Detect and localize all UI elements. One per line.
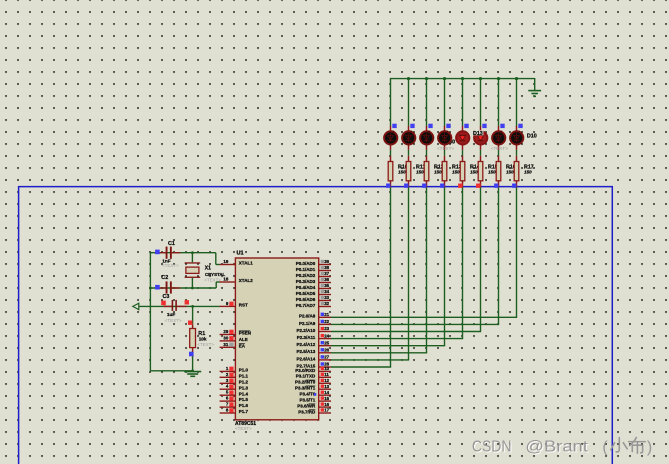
svg-text:P1.4: P1.4 xyxy=(239,391,249,396)
junction crystal bottom / C2 wire xyxy=(191,287,194,290)
label <TEXT> under LED D11 xyxy=(491,146,508,151)
svg-text:16: 16 xyxy=(324,402,329,407)
value 150 (R17) xyxy=(524,169,532,174)
overline WR (pin 16) xyxy=(309,403,316,406)
resistor R17 xyxy=(514,156,519,188)
watermark CSDN @Brant (xiaobu) shadow xyxy=(473,440,590,457)
svg-text:P3.5/T1: P3.5/T1 xyxy=(300,398,316,403)
pin 24 (P2.3/A11) right stub xyxy=(297,333,331,340)
svg-text:P3.3/INT1: P3.3/INT1 xyxy=(295,386,316,391)
svg-text:39: 39 xyxy=(324,259,329,264)
junction on rail at x=444.5 xyxy=(443,77,446,80)
resistor R1 xyxy=(190,324,196,356)
label <TEXT> under LED D14 xyxy=(437,146,454,151)
wire rail to LED D11 anode xyxy=(498,79,500,127)
wire rail to LED D16 anode xyxy=(408,79,410,127)
pin 30 (ALE) left stub xyxy=(220,335,248,342)
LED D12 xyxy=(474,126,487,150)
label fragment D15 (near LED3) xyxy=(411,132,414,138)
value 150 (R16) xyxy=(506,169,514,174)
svg-text:P2.2/A10: P2.2/A10 xyxy=(297,328,316,333)
svg-text:31: 31 xyxy=(223,342,228,347)
wire resistor R13 to P2.4 xyxy=(331,187,445,345)
svg-text:P1.0: P1.0 xyxy=(239,368,249,373)
svg-text:<TEXT>: <TEXT> xyxy=(197,342,214,347)
pin state square (blue) LED D15 top pin xyxy=(428,124,432,128)
svg-text:U1: U1 xyxy=(237,251,244,257)
label R15 xyxy=(488,165,498,171)
pin 17 (P3.7/RD) right stub xyxy=(298,408,331,415)
svg-text:P2.0/A8: P2.0/A8 xyxy=(299,314,316,319)
pin state square (blue) LED D10 top pin xyxy=(518,124,522,128)
value 10k (R1) xyxy=(199,337,207,342)
svg-text:P1.5: P1.5 xyxy=(239,397,249,402)
svg-text:<TEXT>: <TEXT> xyxy=(491,146,508,151)
capacitor C2 xyxy=(157,281,180,293)
pin 14 (P3.4/T0) right stub xyxy=(300,390,331,397)
resistor R11 xyxy=(406,156,411,188)
wire RST net xyxy=(139,305,220,307)
wire LED to resistor R13 xyxy=(444,150,446,156)
svg-text:D13: D13 xyxy=(473,131,483,137)
pin 21 (P2.0/A8) right stub xyxy=(299,312,331,319)
junction on rail at x=462.5 xyxy=(461,77,464,80)
pin state square (blue) LED D16 top pin xyxy=(410,124,414,128)
svg-text:C2: C2 xyxy=(161,275,168,281)
label R12 xyxy=(434,165,444,171)
wire LED to resistor R15 xyxy=(480,150,482,156)
svg-text:13: 13 xyxy=(324,384,329,389)
pin 13 (P3.3/INT1) right stub xyxy=(295,384,331,391)
pin state square R16 bottom pin xyxy=(494,184,498,188)
label C2 xyxy=(161,275,168,281)
wire ground vertical (left) xyxy=(149,252,151,371)
pin state square R17 bottom pin xyxy=(512,184,516,188)
label <TEXT> (U1) xyxy=(235,426,252,431)
wire rail to LED D13 anode xyxy=(462,79,464,127)
label R1 xyxy=(198,331,205,337)
LED D13 xyxy=(456,126,469,150)
svg-text:17: 17 xyxy=(324,408,329,413)
pin 23 (P2.2/A10) right stub xyxy=(297,326,331,333)
svg-text:): ) xyxy=(647,439,652,456)
value 150 (R10) xyxy=(398,169,406,174)
pin state square R10 bottom pin xyxy=(386,184,390,188)
svg-text:35: 35 xyxy=(324,283,329,288)
svg-text:P0.7/AD7: P0.7/AD7 xyxy=(296,303,316,308)
pin 8 (P1.7) left stub xyxy=(220,408,249,415)
LED D15 xyxy=(420,126,433,150)
pin state square (blue) LED D14 top pin xyxy=(446,124,450,128)
pin 34 (P0.5/AD5) right stub xyxy=(296,289,331,296)
pin state square (blue) LED D17 top pin xyxy=(392,124,396,128)
resistor R12 xyxy=(424,156,429,188)
svg-text:1uF: 1uF xyxy=(167,312,175,317)
pin 11 (P3.1/TXD) right stub xyxy=(296,372,331,379)
pin 35 (P0.4/AD4) right stub xyxy=(296,283,331,290)
pin 1 (P1.0) left stub xyxy=(220,366,249,373)
pin 10 (P3.0/RXD) right stub xyxy=(295,366,331,373)
wire C1 net (top horizontal to XTAL1) xyxy=(150,253,219,265)
svg-text:P2.6/A14: P2.6/A14 xyxy=(297,356,316,361)
pin state square R1 top pin (red) xyxy=(188,321,192,325)
pin 12 (P3.2/INT0) right stub xyxy=(295,378,331,385)
overline RD (pin 17) xyxy=(309,408,315,411)
wire resistor R14 to P2.3 xyxy=(331,187,463,338)
wire ground drop (rail right end) xyxy=(534,78,536,90)
pin 29 (PSEN) left stub xyxy=(220,329,251,336)
value 150 (R13) xyxy=(452,169,460,174)
junction on rail at x=498.5 xyxy=(497,77,500,80)
value 1uF (C3) xyxy=(167,312,175,317)
svg-text:P3.0/RXD: P3.0/RXD xyxy=(295,368,316,373)
resistor R13 xyxy=(442,156,447,188)
svg-text:<TEXT>: <TEXT> xyxy=(162,263,179,268)
label <TEXT> (C3) xyxy=(165,318,182,323)
svg-text:150: 150 xyxy=(452,169,460,174)
pin 32 (P0.7/AD7) right stub xyxy=(296,301,331,308)
label R13 xyxy=(452,165,462,171)
svg-text:P0.3/AD3: P0.3/AD3 xyxy=(296,279,316,284)
pin 9 (RST) left stub xyxy=(220,301,248,308)
label R14 xyxy=(470,165,480,171)
LED D16 xyxy=(402,126,415,150)
op-amp U1 (AT89C51 MCU body) xyxy=(235,258,318,420)
pin 15 (P3.5/T1) right stub xyxy=(300,396,331,403)
wire resistor R17 to P2.0 xyxy=(331,187,517,317)
svg-text:@Brant: @Brant xyxy=(525,438,588,455)
label R11 xyxy=(416,165,425,171)
svg-text:24: 24 xyxy=(324,333,329,338)
svg-text:XTAL2: XTAL2 xyxy=(239,278,253,283)
pin state square C2 left pin (blue) xyxy=(155,285,160,290)
svg-text:25: 25 xyxy=(324,340,329,345)
value 150 (R15) xyxy=(488,169,496,174)
pin 38 (P0.1/AD1) right stub xyxy=(296,265,331,272)
pin state square (blue) LED D12 top pin xyxy=(482,124,486,128)
label R10 xyxy=(398,165,408,171)
svg-text:P3.4/T0: P3.4/T0 xyxy=(300,392,316,397)
svg-text:P2.3/A11: P2.3/A11 xyxy=(297,335,316,340)
wire LED to resistor R14 xyxy=(462,150,464,156)
label <TEXT> (X1) xyxy=(204,277,221,282)
pin 25 (P2.4/A12) right stub xyxy=(297,340,331,347)
junction on rail at x=516.5 xyxy=(515,77,518,80)
wire resistor R15 to P2.2 xyxy=(331,187,481,331)
svg-text:34: 34 xyxy=(324,289,329,294)
svg-text:XTAL1: XTAL1 xyxy=(239,261,253,266)
pin state square C3 left pin (red) xyxy=(161,301,166,306)
svg-text:<TEXT>: <TEXT> xyxy=(165,318,182,323)
pin 4 (P1.3) left stub xyxy=(220,384,249,391)
svg-text:(: ( xyxy=(602,439,608,456)
junction on rail at x=480.5 xyxy=(479,77,482,80)
svg-text:150: 150 xyxy=(524,169,532,174)
label fragment D13 value xyxy=(449,140,455,146)
svg-text:P3.7/RD: P3.7/RD xyxy=(298,409,316,414)
pin state square (blue) LED D13 top pin xyxy=(464,124,468,128)
label U1 xyxy=(237,251,244,257)
watermark CSDN @Brant (xiaobu) xyxy=(472,437,652,455)
probe marker (blue, P3.4 row) xyxy=(314,393,316,396)
LED D11 xyxy=(492,126,505,150)
wire resistor R16 to P2.1 xyxy=(331,187,499,324)
svg-text:P1.7: P1.7 xyxy=(239,409,249,414)
svg-text:30: 30 xyxy=(223,335,228,340)
svg-text:X1: X1 xyxy=(205,266,211,272)
svg-text:CSDN: CSDN xyxy=(472,438,512,455)
label D13 (LED D13) xyxy=(472,130,484,137)
svg-text:C1: C1 xyxy=(168,241,175,247)
label <TEXT> (R1) xyxy=(197,342,214,347)
value 1nF (C1) xyxy=(162,259,170,264)
svg-text:P3.2/INT0: P3.2/INT0 xyxy=(295,380,316,385)
pin 33 (P0.6/AD6) right stub xyxy=(296,295,331,302)
wire VCC/ground rail (top horizontal) xyxy=(390,78,535,80)
svg-text:<TEXT>: <TEXT> xyxy=(437,146,454,151)
pin state square R14 bottom pin xyxy=(458,184,462,188)
wire RST junction down to R1 xyxy=(192,306,194,324)
pin state square C3 right pin (red) xyxy=(185,300,189,304)
svg-text:RST: RST xyxy=(239,303,248,308)
wire LED to resistor R17 xyxy=(516,150,518,156)
resistor R10 xyxy=(388,156,393,188)
wire R1 bottom to ground xyxy=(192,357,194,372)
svg-text:150: 150 xyxy=(434,169,442,174)
pin 5 (P1.4) left stub xyxy=(220,390,249,397)
terminal arrow (RST net, left) xyxy=(133,303,139,309)
overline EA xyxy=(239,342,245,345)
svg-text:18: 18 xyxy=(223,277,228,282)
svg-text:P2.1/A9: P2.1/A9 xyxy=(299,321,316,326)
overline PSEN xyxy=(239,330,250,333)
wire rail to LED D12 anode xyxy=(480,79,482,127)
resistor R15 xyxy=(478,156,483,188)
svg-text:P0.4/AD4: P0.4/AD4 xyxy=(296,285,316,290)
svg-text:P0.1/AD1: P0.1/AD1 xyxy=(296,267,316,272)
sheet border (blue rectangle) xyxy=(19,187,613,464)
svg-text:11: 11 xyxy=(324,372,329,377)
capacitor C1 xyxy=(157,247,180,259)
value 150 (R12) xyxy=(434,169,442,174)
label X1 xyxy=(205,266,211,272)
wire ground horizontal (bottom) xyxy=(150,370,192,372)
svg-text:P1.1: P1.1 xyxy=(239,373,249,378)
svg-text:27: 27 xyxy=(324,355,329,360)
wire C2 net (horizontal to XTAL2) xyxy=(150,282,219,288)
label R16 xyxy=(506,165,516,171)
pin 22 (P2.1/A9) right stub xyxy=(299,319,331,326)
svg-text:P0.0/AD0: P0.0/AD0 xyxy=(296,261,316,266)
svg-text:PSEN: PSEN xyxy=(239,331,251,336)
svg-text:22: 22 xyxy=(324,319,329,324)
pin 28 (P2.7/A15) right stub xyxy=(297,362,331,369)
svg-text:150: 150 xyxy=(506,169,514,174)
pin state square C1 left pin (blue) xyxy=(155,250,160,255)
svg-text:29: 29 xyxy=(223,329,228,334)
label fragment D14 xyxy=(438,132,444,138)
svg-text:P0.6/AD6: P0.6/AD6 xyxy=(296,297,316,302)
svg-text:C3: C3 xyxy=(163,294,170,300)
pin 7 (P1.6) left stub xyxy=(220,402,249,409)
overline INT1 (pin 13) xyxy=(306,385,315,388)
pin 3 (P1.2) left stub xyxy=(220,378,249,385)
svg-text:36: 36 xyxy=(324,277,329,282)
pin state square R12 bottom pin xyxy=(422,184,426,188)
svg-text:10: 10 xyxy=(324,366,329,371)
pin 31 (EA) left stub xyxy=(220,342,246,349)
junction crystal top / C1 wire xyxy=(191,251,194,254)
svg-text:P2.5/A13: P2.5/A13 xyxy=(297,349,316,354)
wire resistor R12 to P2.5 xyxy=(331,187,427,352)
ground (below R1) xyxy=(184,372,201,377)
svg-text:P0.2/AD2: P0.2/AD2 xyxy=(296,273,316,278)
svg-text:ALE: ALE xyxy=(239,337,248,342)
junction on rail at x=408.5 xyxy=(407,77,410,80)
svg-text:EA: EA xyxy=(239,343,246,348)
pin state square R1 bottom pin (blue) xyxy=(189,352,194,357)
svg-text:<TEXT>: <TEXT> xyxy=(235,426,252,431)
label AT89C51 (U1) xyxy=(235,421,256,427)
svg-text:P0.5/AD5: P0.5/AD5 xyxy=(296,291,316,296)
LED D17 xyxy=(384,126,397,150)
svg-text:150: 150 xyxy=(416,169,424,174)
svg-text:<TEXT>: <TEXT> xyxy=(204,277,221,282)
wire LED to resistor R10 xyxy=(390,150,392,156)
pin 37 (P0.2/AD2) right stub xyxy=(296,271,331,278)
pin 27 (P2.6/A14) right stub xyxy=(297,355,331,362)
svg-text:19: 19 xyxy=(223,259,228,264)
svg-text:23: 23 xyxy=(324,326,329,331)
pin 39 (P0.0/AD0) right stub xyxy=(296,259,331,266)
value 150 (R11) xyxy=(416,169,424,174)
svg-text:33: 33 xyxy=(324,295,329,300)
wire resistor R10 to P2.7 xyxy=(331,187,391,367)
svg-text:32: 32 xyxy=(324,301,329,306)
pin state square R13 bottom pin xyxy=(440,184,444,188)
svg-text:12: 12 xyxy=(324,378,329,383)
label C1 xyxy=(168,241,175,247)
wire rail to LED D14 anode xyxy=(444,79,446,127)
LED D10 xyxy=(510,126,523,150)
label D10 (LED D10) xyxy=(527,134,537,140)
wire LED to resistor R12 xyxy=(426,150,428,156)
wire LED to resistor R16 xyxy=(498,150,500,156)
svg-text:14: 14 xyxy=(324,390,329,395)
svg-text:P1.6: P1.6 xyxy=(239,403,249,408)
junction ground wire / R1 column xyxy=(191,369,194,372)
svg-text:26: 26 xyxy=(324,348,329,353)
svg-text:150: 150 xyxy=(470,169,478,174)
resistor R16 xyxy=(496,156,501,188)
svg-text:P1.2: P1.2 xyxy=(239,379,249,384)
crystal X1 xyxy=(185,253,201,288)
pin 2 (P1.1) left stub xyxy=(220,372,249,379)
resistor R14 xyxy=(460,156,465,188)
pin 19 (XTAL1) left stub xyxy=(220,259,254,266)
wire rail to LED D10 anode xyxy=(516,79,518,127)
junction RST / R1 top xyxy=(191,305,194,308)
pin state square R15 bottom pin xyxy=(476,184,480,188)
value 150 (R14) xyxy=(470,169,478,174)
label R17 xyxy=(524,165,534,171)
junction C2/ground vertical xyxy=(149,287,152,290)
pin 16 (P3.6/WR) right stub xyxy=(297,402,331,409)
svg-text:21: 21 xyxy=(324,312,329,317)
capacitor C3 xyxy=(164,300,187,311)
pin 6 (P1.5) left stub xyxy=(220,396,249,403)
pin state square (blue) LED D11 top pin xyxy=(500,124,504,128)
svg-text:P3.1/TXD: P3.1/TXD xyxy=(296,374,316,379)
svg-text:38: 38 xyxy=(324,265,329,270)
svg-text:150: 150 xyxy=(398,169,406,174)
label CRYSTAL (X1) xyxy=(205,272,226,277)
svg-text:P2.4/A12: P2.4/A12 xyxy=(297,342,316,347)
label C3 xyxy=(163,294,170,300)
label <TEXT> (C1) xyxy=(162,263,179,268)
pin 36 (P0.3/AD3) right stub xyxy=(296,277,331,284)
wire rail to LED D17 anode xyxy=(390,79,392,127)
ground (top right) xyxy=(528,91,541,97)
svg-text:37: 37 xyxy=(324,271,329,276)
pin 26 (P2.5/A13) right stub xyxy=(297,348,331,355)
pin 18 (XTAL2) left stub xyxy=(220,277,254,284)
svg-text:P1.3: P1.3 xyxy=(239,385,249,390)
svg-text:10k: 10k xyxy=(199,337,207,342)
svg-text:P3.6/WR: P3.6/WR xyxy=(297,404,316,409)
pin state square R11 bottom pin xyxy=(404,184,408,188)
svg-text:D10: D10 xyxy=(527,134,537,140)
wire rail to LED D15 anode xyxy=(426,79,428,127)
LED D14 xyxy=(438,126,451,150)
junction on rail at x=426.5 xyxy=(425,77,428,80)
svg-text:15: 15 xyxy=(324,396,329,401)
wire resistor R11 to P2.6 xyxy=(331,187,409,360)
overline INT0 (pin 12) xyxy=(306,379,315,382)
wire LED to resistor R11 xyxy=(408,150,410,156)
svg-text:150: 150 xyxy=(488,169,496,174)
